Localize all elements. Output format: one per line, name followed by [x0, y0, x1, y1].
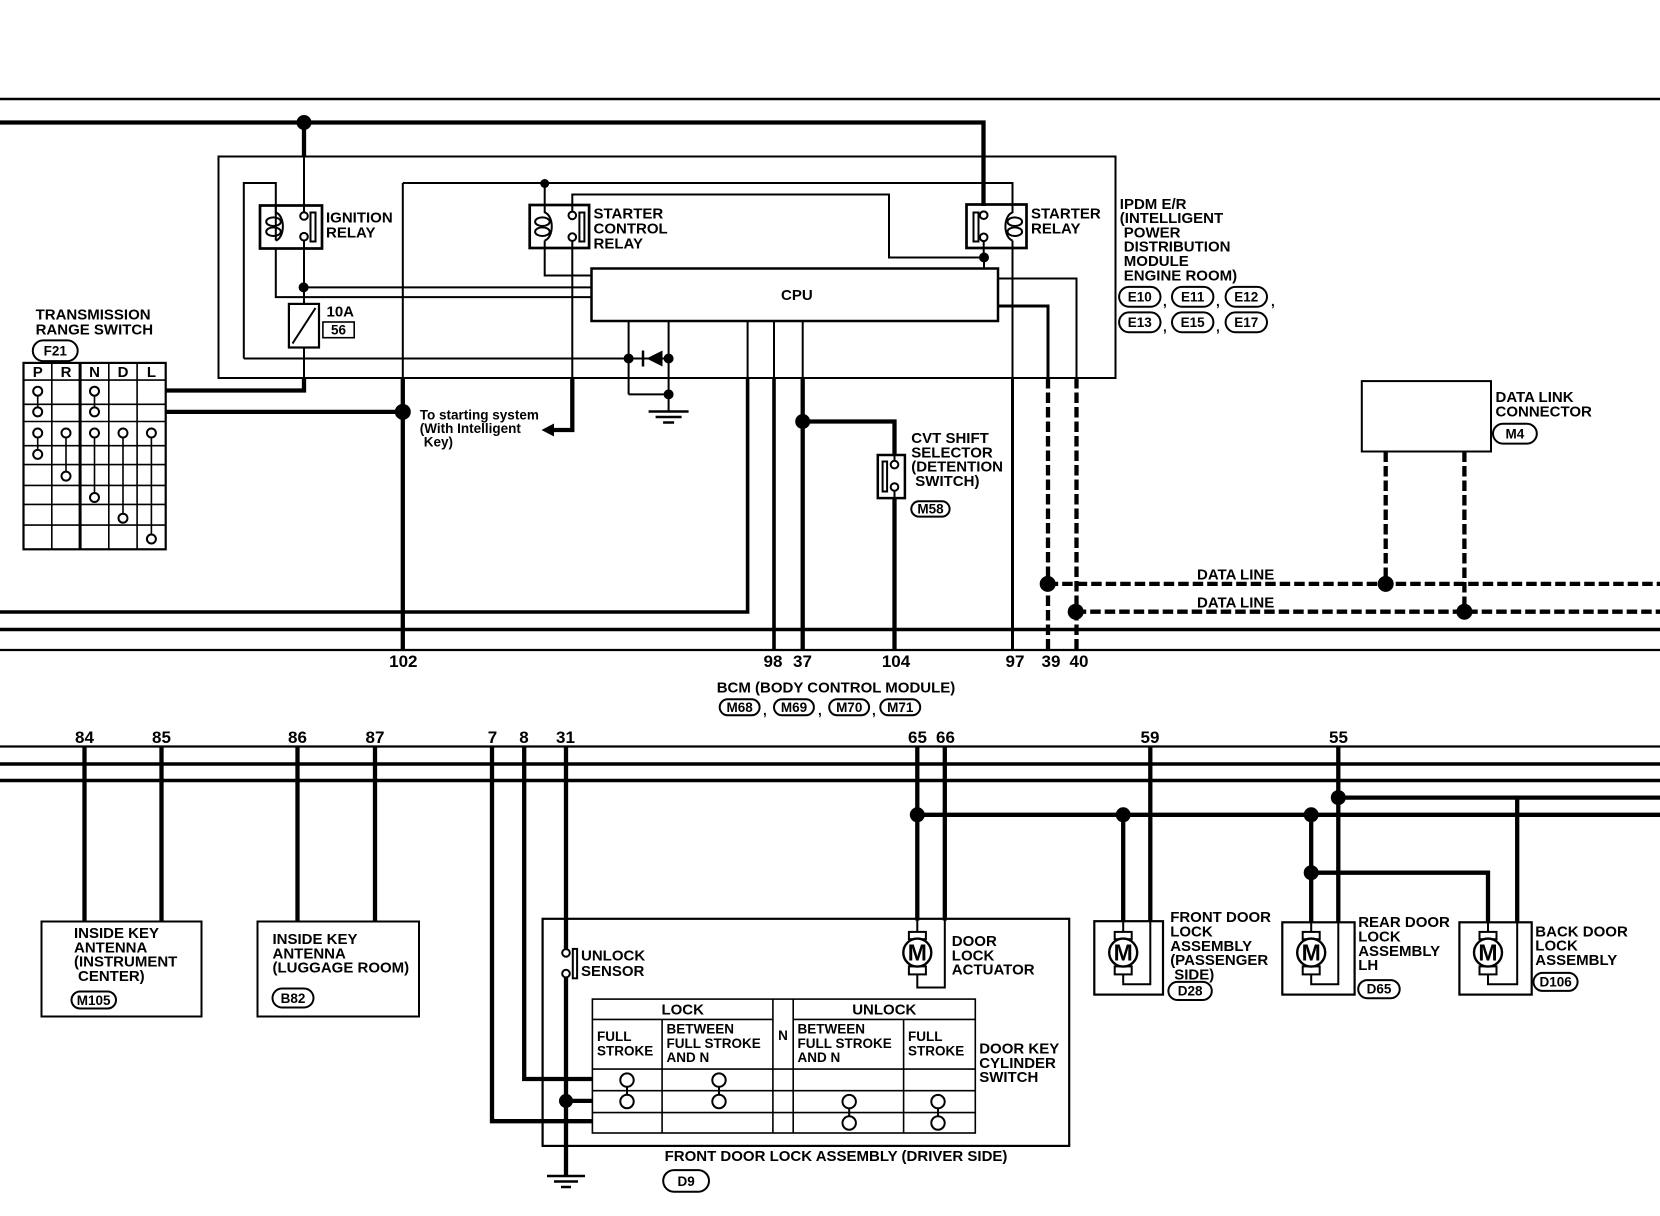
svg-text:86: 86: [288, 728, 307, 747]
svg-text:98: 98: [764, 652, 783, 671]
component box: FRONT DOOR LOCK ASSEMBLY (PASSENGER SIDE): [1094, 921, 1163, 994]
svg-text:BETWEEN: BETWEEN: [798, 1022, 866, 1037]
svg-text:F21: F21: [44, 344, 68, 359]
key cylinder contacts: unlock full stroke: [931, 1095, 944, 1108]
svg-text:59: 59: [1141, 728, 1160, 747]
connector oval D9: [663, 1170, 709, 1192]
svg-text:,: ,: [1163, 294, 1167, 309]
svg-text:SENSOR: SENSOR: [581, 963, 645, 980]
node: junction at pin 102 wire: [395, 404, 411, 420]
relay: STARTER CONTROL RELAY box: [530, 205, 589, 248]
svg-text:,: ,: [1163, 320, 1167, 335]
component box: BACK DOOR LOCK ASSEMBLY: [1459, 922, 1531, 994]
svg-text:M68: M68: [726, 700, 753, 715]
connector ovals E13 E15 E17: [1119, 312, 1267, 334]
svg-text:P: P: [33, 364, 43, 381]
ground: IPDM ground symbol: [649, 412, 689, 423]
svg-text:10A: 10A: [327, 304, 355, 321]
svg-text:E17: E17: [1234, 315, 1258, 330]
connector ovals E10 E11 E12: [1119, 287, 1275, 309]
wire: relay coil feed line inside IPDM: [403, 183, 1013, 213]
connector oval M4: [1493, 424, 1537, 444]
starter relay coil (mirrored): [1005, 213, 1012, 241]
connector oval D65: [1358, 980, 1400, 998]
wire: lower bus line 3: [0, 779, 1660, 783]
svg-text:E13: E13: [1128, 315, 1153, 330]
svg-text:N: N: [778, 1028, 788, 1043]
svg-text:ASSEMBLY: ASSEMBLY: [1535, 952, 1617, 969]
connector oval B82: [273, 989, 314, 1008]
unlock sensor contact circles and bar: [562, 949, 570, 957]
wire: pin 31 to unlock sensor: [564, 747, 568, 950]
starter control relay contact circles and bar: [569, 212, 577, 220]
wire: pin 65 down to junction: [915, 747, 919, 815]
label: REAR DOOR LOCK ASSEMBLY LH: [1358, 914, 1450, 974]
node: data line 2 / DLC junction: [1456, 604, 1472, 620]
wire: CPU bottom pin to BCM pin 37: [802, 321, 804, 378]
svg-text:CONNECTOR: CONNECTOR: [1496, 403, 1593, 420]
wire: CPU bottom pin to diode anode: [628, 321, 630, 359]
svg-text:LOCK: LOCK: [661, 1002, 704, 1019]
svg-text:87: 87: [366, 728, 385, 747]
svg-text:D65: D65: [1367, 982, 1392, 997]
svg-text:FULL STROKE: FULL STROKE: [798, 1036, 892, 1051]
wire: pin 84 to inside key antenna: [82, 747, 86, 922]
node: diode left junction: [624, 354, 634, 364]
connector box: DATA LINK CONNECTOR: [1362, 381, 1491, 451]
wire: feed down to driver door lock actuator: [915, 815, 919, 921]
svg-text:7: 7: [488, 728, 497, 747]
wire: DLC pin to data line 2 (dashed): [1462, 452, 1466, 612]
svg-text:66: 66: [936, 728, 955, 747]
wire: ignition contact bottom pin to fuse: [303, 241, 305, 304]
svg-text:,: ,: [872, 703, 876, 718]
svg-text:M4: M4: [1506, 427, 1525, 442]
wire: door lock branch line (pin 55 to back door): [1338, 795, 1660, 799]
svg-text:M: M: [1302, 940, 1321, 966]
starter relay contact bar and circles (mirrored): [974, 213, 979, 242]
svg-text:102: 102: [389, 652, 417, 671]
ignition relay pin stubs: [275, 206, 277, 214]
wire: diode line from ignition coil jog: [244, 358, 629, 360]
switch contacts: P column: [33, 387, 42, 459]
svg-text:M71: M71: [887, 700, 914, 715]
node: junction below starter relay: [979, 253, 989, 263]
label: IPDM E/R (INTELLIGENT POWER DISTRIBUTION MODULE ENGINE ROOM): [1120, 196, 1237, 284]
node: data line 2 / pin 40 junction: [1068, 604, 1084, 620]
svg-text:STROKE: STROKE: [597, 1043, 653, 1058]
node: pin 65 junction on feed line: [910, 807, 925, 822]
svg-text:FULL STROKE: FULL STROKE: [667, 1036, 761, 1051]
wire: branch to CVT shift selector switch: [803, 422, 895, 457]
wire: dashed data line vertical to pin 39: [1046, 378, 1050, 650]
svg-text:RELAY: RELAY: [594, 236, 643, 253]
ground: driver door ground symbol: [547, 1176, 585, 1187]
svg-text:STROKE: STROKE: [908, 1043, 964, 1058]
key cylinder contacts: unlock between: [843, 1095, 856, 1108]
svg-text:M69: M69: [781, 700, 807, 715]
wire: BCM bottom edge line: [0, 745, 1660, 747]
svg-text:M: M: [1114, 940, 1133, 966]
wire: starter control relay contact top to starter relay contact bottom: [572, 195, 984, 258]
svg-text:ENGINE ROOM): ENGINE ROOM): [1124, 267, 1237, 284]
svg-text:D28: D28: [1178, 984, 1203, 999]
wire: starter relay coil bottom down to BCM pin 97: [1012, 241, 1014, 379]
wire: to CPU left pin 1: [304, 286, 592, 288]
svg-text:FRONT DOOR LOCK ASSEMBLY (DRIV: FRONT DOOR LOCK ASSEMBLY (DRIVER SIDE): [665, 1148, 1008, 1165]
node: junction ignition contact / CPU feed: [299, 282, 309, 292]
wire: ignition coil bottom to CPU left pin 2: [276, 249, 592, 298]
connector ovals M68 M69 M70 M71: [720, 699, 921, 718]
wire: BCM top edge line: [0, 649, 1660, 651]
svg-text:RELAY: RELAY: [1031, 221, 1080, 238]
wire: CPU bottom pin to BCM pin 98: [773, 321, 775, 378]
svg-text:D106: D106: [1539, 975, 1572, 990]
connector oval D106: [1534, 973, 1578, 991]
diode: coil suppression diode: [629, 358, 669, 360]
connector oval F21: [33, 340, 78, 361]
svg-text:N: N: [89, 364, 100, 381]
svg-text:(LUGGAGE ROOM): (LUGGAGE ROOM): [273, 960, 410, 977]
wire: pin 8 to key cylinder switch row 1: [524, 747, 592, 1080]
svg-text:R: R: [61, 364, 72, 381]
node: ground junction: [664, 389, 674, 399]
fuse: 10A number 56: [289, 304, 319, 348]
labels: P R N D L: [33, 364, 156, 381]
node: rear/back branch junction: [1304, 865, 1319, 880]
switch: CVT SHIFT SELECTOR (DETENTION SWITCH): [878, 455, 905, 498]
label: INSIDE KEY ANTENNA (INSTRUMENT CENTER): [74, 925, 177, 985]
wire: pin 59 to passenger door assembly: [1148, 747, 1152, 922]
CPU box: [592, 269, 999, 322]
ignition relay coil: [276, 213, 283, 241]
ignition relay contact circles and bar: [300, 212, 308, 220]
svg-text:37: 37: [793, 652, 812, 671]
wire: CVT switch bottom to BCM pin 104: [892, 498, 896, 650]
wire: BCM top bus line 2: [0, 628, 1660, 632]
wire: pin 87 to luggage antenna: [373, 747, 377, 922]
connector oval M58: [911, 501, 949, 516]
switch table: DOOR KEY CYLINDER SWITCH: [592, 999, 975, 1133]
wire: pin 86 to luggage antenna: [295, 747, 299, 922]
key cylinder contacts: lock between: [712, 1073, 725, 1086]
svg-text:D9: D9: [677, 1174, 694, 1189]
switch contacts: D column: [119, 429, 128, 523]
key cylinder contacts: lock full stroke: [620, 1073, 633, 1086]
node: diode right junction: [664, 354, 674, 364]
component box: FRONT DOOR LOCK ASSEMBLY (DRIVER SIDE): [543, 919, 1070, 1146]
node: data line 1 / pin 39 junction: [1040, 576, 1056, 592]
svg-text:,: ,: [763, 703, 767, 718]
label: FRONT DOOR LOCK ASSEMBLY (PASSENGER SIDE): [1170, 909, 1271, 983]
arrowhead: to starting system: [542, 424, 555, 437]
module box: IPDM E/R: [219, 157, 1116, 379]
wire: CPU right pin to BCM pin 39: [998, 306, 1048, 378]
svg-text:FULL: FULL: [597, 1029, 632, 1044]
wire: starter control relay contact bottom down and out (to starting system): [571, 241, 573, 378]
wire: CPU bottom pin to diode cathode / ground: [668, 321, 670, 359]
node: passenger actuator feed junction: [1116, 807, 1131, 822]
wire: feed down to passenger actuator: [1121, 815, 1125, 921]
svg-text:CENTER): CENTER): [78, 968, 145, 985]
node: data line 1 / DLC junction: [1378, 576, 1394, 592]
component box: INSIDE KEY ANTENNA (LUGGAGE ROOM): [258, 922, 420, 1017]
svg-text:B82: B82: [281, 991, 306, 1006]
label: BACK DOOR LOCK ASSEMBLY: [1535, 923, 1628, 969]
component box: INSIDE KEY ANTENNA (INSTRUMENT CENTER): [42, 922, 202, 1017]
wire: CPU bottom pin to wire going left along y612: [747, 321, 749, 378]
svg-text:,: ,: [1216, 294, 1220, 309]
wire: ignition coil top to diode line (L-jog): [244, 183, 276, 359]
svg-text:RANGE SWITCH: RANGE SWITCH: [36, 322, 154, 339]
svg-text:M: M: [1478, 940, 1497, 966]
wire: branch to back door actuator top: [1311, 873, 1488, 923]
node: pin 55 branch junction: [1331, 790, 1346, 805]
svg-text:E15: E15: [1181, 315, 1206, 330]
wire: top supply line 1: [0, 98, 1660, 101]
svg-text:AND N: AND N: [798, 1050, 841, 1065]
switch contacts: L column: [147, 429, 156, 544]
wire: DATA LINE 2 dashed horizontal: [1076, 610, 1660, 614]
svg-text:CPU: CPU: [781, 287, 813, 304]
svg-text:31: 31: [556, 728, 575, 747]
svg-text:SIDE): SIDE): [1174, 966, 1214, 983]
wire: pin 66 down to driver actuator bottom: [943, 747, 947, 921]
node: sensor ground / key cylinder row 2 junction: [559, 1094, 573, 1108]
svg-text:RELAY: RELAY: [326, 225, 375, 242]
svg-text:97: 97: [1006, 652, 1025, 671]
svg-text:BCM (BODY CONTROL MODULE): BCM (BODY CONTROL MODULE): [717, 680, 956, 697]
svg-text:UNLOCK: UNLOCK: [852, 1002, 916, 1019]
node: rear actuator feed junction: [1304, 807, 1319, 822]
switch contacts: R column: [62, 429, 71, 481]
wire: BCM pin 102 vertical (up into IPDM, down to BCM): [401, 378, 405, 412]
svg-text:BETWEEN: BETWEEN: [667, 1022, 735, 1037]
wire: fuse bottom out of IPDM to range switch row 1: [303, 348, 305, 379]
svg-text:E10: E10: [1128, 290, 1152, 305]
relay: IGNITION RELAY box: [260, 206, 322, 249]
label: INSIDE KEY ANTENNA (LUGGAGE ROOM): [273, 931, 410, 977]
wire: CPU right pin to BCM pin 40 (thin inside IPDM): [998, 279, 1077, 379]
motor: rear door lock actuator: [1297, 932, 1325, 975]
svg-text:,: ,: [1271, 294, 1275, 309]
motor: back door lock actuator: [1474, 932, 1502, 975]
svg-text:SWITCH: SWITCH: [979, 1069, 1038, 1086]
svg-text:40: 40: [1070, 652, 1089, 671]
node: junction on supply line 2: [297, 115, 312, 130]
wire: feed down to rear actuator with branch to back door: [1309, 815, 1313, 923]
connector oval M105: [72, 992, 117, 1009]
svg-text:Key): Key): [424, 434, 453, 449]
svg-text:,: ,: [818, 703, 822, 718]
wire: actuator common feed line (pin 65): [917, 813, 1660, 817]
switch table: transmission range switch grid: [24, 363, 166, 549]
svg-text:65: 65: [908, 728, 927, 747]
svg-text:55: 55: [1329, 728, 1348, 747]
svg-text:M58: M58: [917, 501, 944, 516]
svg-text:56: 56: [331, 323, 347, 338]
svg-text:M70: M70: [836, 700, 862, 715]
wire: junction down into CPU top: [983, 258, 985, 269]
wire: lower bus line 2: [0, 762, 1660, 766]
starter control relay coil: [545, 213, 552, 241]
node: junction to CVT shift selector: [795, 414, 810, 429]
wire: back door actuator bottom from line 797.6: [1515, 798, 1519, 923]
svg-text:84: 84: [75, 728, 94, 747]
wire: unlock sensor down to ground with junction: [564, 977, 568, 1176]
svg-text:,: ,: [1216, 320, 1220, 335]
motor: passenger door lock actuator: [1109, 932, 1137, 975]
svg-text:39: 39: [1042, 652, 1061, 671]
svg-text:ACTUATOR: ACTUATOR: [952, 962, 1035, 979]
component box: REAR DOOR LOCK ASSEMBLY LH: [1282, 922, 1354, 994]
node: junction feeding starter control relay coil: [540, 179, 549, 188]
svg-text:104: 104: [882, 652, 911, 671]
wire: range switch row 2 to BCM pin 102 junction: [166, 410, 403, 414]
svg-text:M: M: [908, 940, 927, 966]
relay: STARTER RELAY box: [967, 205, 1027, 249]
svg-text:DATA LINE: DATA LINE: [1197, 567, 1274, 584]
wire: DATA LINE 1 dashed horizontal: [1048, 582, 1660, 586]
wire: dashed data line vertical to pin 40: [1074, 378, 1078, 650]
wire: top supply line 2 (battery feed to starter relay): [0, 123, 984, 207]
svg-text:E12: E12: [1234, 290, 1258, 305]
motor: driver DOOR LOCK ACTUATOR: [903, 932, 931, 975]
wire: feed from junction down to ignition relay: [302, 123, 306, 158]
svg-text:M105: M105: [77, 993, 111, 1008]
svg-text:E11: E11: [1181, 290, 1205, 305]
svg-text:D: D: [118, 364, 129, 381]
switch contacts: N column: [90, 387, 99, 502]
wire: pin 85 to inside key antenna: [159, 747, 163, 922]
wire: down to ground joint: [628, 359, 630, 395]
svg-text:SWITCH): SWITCH): [915, 473, 979, 490]
wire: stub to starter control relay coil: [544, 184, 546, 214]
svg-text:DATA LINE: DATA LINE: [1197, 595, 1274, 612]
wire: starter control relay coil bottom to CPU: [545, 241, 592, 276]
connector oval D28: [1168, 982, 1211, 1000]
svg-text:85: 85: [152, 728, 171, 747]
svg-text:8: 8: [519, 728, 528, 747]
wire: pin 55 to rear door assembly: [1336, 747, 1340, 923]
wire: pin 7 to key cylinder switch row 3: [492, 747, 592, 1122]
svg-text:LH: LH: [1358, 957, 1378, 974]
svg-text:FULL: FULL: [908, 1029, 943, 1044]
svg-text:L: L: [147, 364, 156, 381]
wire: junction to key cylinder switch row 2: [566, 1099, 592, 1103]
svg-text:AND N: AND N: [667, 1050, 710, 1065]
wire: starter relay contact bottom pin: [983, 241, 985, 258]
wire: DLC pin to data line 1 (dashed): [1384, 452, 1388, 584]
